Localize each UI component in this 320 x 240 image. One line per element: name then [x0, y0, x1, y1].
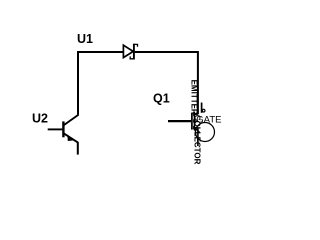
svg-text:U2: U2: [32, 112, 48, 126]
svg-text:Q1: Q1: [153, 92, 170, 106]
svg-text:U1: U1: [77, 32, 93, 46]
svg-text:EMITTER: EMITTER: [189, 80, 198, 115]
svg-text:COLLECTOR: COLLECTOR: [193, 115, 202, 165]
